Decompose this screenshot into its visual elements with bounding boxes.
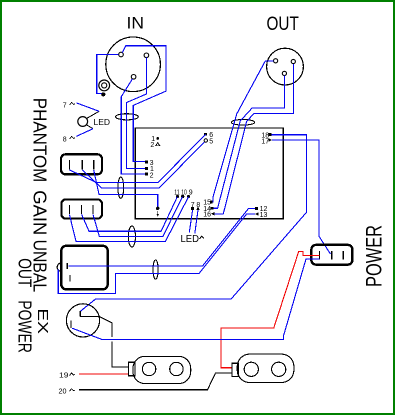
svg-text:EX: EX [34,308,51,334]
wire PCB pin 8 to LED [195,210,198,234]
wire IN left pin to chassis lug [97,55,119,94]
svg-text:19: 19 [59,372,69,379]
PCB pin 5 [204,139,207,142]
R1 shaft bump [57,263,61,271]
wire R1 wiper to PCB pin 12 [68,208,255,265]
cable tie E3 vertical [118,177,124,198]
wire PCB pin 7 to LED [189,210,192,233]
svg-text:8: 8 [63,137,67,144]
power jack J3 body [311,245,352,265]
wire S1-3 to PCB pin 4 [94,170,158,206]
J2 pin right [291,59,295,63]
wire S1-1 to PCB pin 6 [69,134,205,182]
cable tie E2 under OUT [231,120,254,126]
J2 pin left [274,59,278,63]
wire S1-2 to PCB pin 5 [82,142,204,188]
wire OUT pin2(left) to PCB pin 15 [212,61,273,202]
J2 pin bottom [282,71,286,75]
J1 pin right [144,53,149,58]
PCB pin 1 [145,167,148,170]
S1 pin ticks [69,160,93,170]
svg-text:2: 2 [150,142,154,149]
switch S1 PHANTOM body [61,154,102,174]
wire S2-2 to PCB pin 9 [82,197,178,231]
ground lug solder dot [101,92,105,96]
PCB pin 11 [176,195,179,198]
connector J1 XLR IN body [106,37,161,92]
pin 4 down arrow [157,211,159,215]
wire IN pin2(left) to PCB pin 3 [122,46,166,162]
svg-text:17: 17 [261,139,269,146]
svg-text:16: 16 [203,212,211,219]
J1 pin left [119,52,124,57]
wire R1 terminal to PCB pin 13 [58,214,255,294]
LED D1 body [78,117,88,127]
PCB pin 10 [181,195,184,198]
blue wire J3 tip to EX jack sleeve [72,259,320,339]
svg-text:7: 7 [63,103,67,110]
svg-text:POWER: POWER [362,225,387,287]
wire S2-3 to PCB pin 10 [93,197,182,237]
svg-text:IN: IN [127,13,145,32]
PCB pin 4 dot [156,207,159,210]
S2 pin ticks [69,205,93,214]
wire OUT pin1(bottom) to PCB pin 14 [214,76,285,209]
TB2 hole 2 [272,362,286,376]
terminal block TB1 tab [129,362,136,376]
cable tie E4 vertical [128,226,135,247]
cable tie E5 vertical [153,260,158,279]
terminal block TB2 body [237,354,294,382]
EX jack sleeve contact [70,321,72,329]
terminal block TB2 tab [232,363,239,376]
TB1 hole 1 [142,362,155,375]
svg-text:OUT: OUT [267,14,300,35]
J1 pin bottom [131,75,136,80]
chassis ground lug [99,80,110,91]
PCB pin 6 [204,133,207,136]
black wire 20 to terminal block 2 [79,373,232,390]
J3 terminal ticks [319,251,343,259]
svg-text:GAIN: GAIN [29,190,49,235]
red wire J3 tip to terminal block 2 [221,252,320,368]
svg-text:2: 2 [150,172,154,179]
wire PCB pin 18 to EX jack tip [81,135,307,312]
wire S2-1 to PCB pin 11 [69,197,188,242]
wire LED cathode to 8 [77,129,94,137]
EX OUT jack body [66,304,99,337]
PCB pin 2 [145,173,148,176]
switch S2 GAIN body [61,199,102,218]
wire IN pin3(right) to PCB pin 1 [127,58,147,169]
svg-text:20: 20 [59,388,67,395]
potentiometer R1 GAIN body [61,246,107,290]
LED lead top [86,111,99,118]
svg-text:LED: LED [181,234,200,245]
TB2 hole 1 [244,362,258,376]
svg-text:LED: LED [94,117,111,127]
svg-text:5: 5 [209,139,213,146]
wire IN pin1(bottom) to PCB pin 2 [121,79,145,174]
wire LED anode to 7 [77,103,100,111]
terminal block TB1 body [133,356,191,383]
LED lead bottom [86,125,93,129]
svg-text:PHANTOM: PHANTOM [29,98,49,183]
R1 terminal ticks [67,263,70,281]
svg-text:13: 13 [260,212,268,219]
PCB pin 9 [187,195,190,198]
wire PCB pin 17 to power jack center [272,140,331,254]
EX jack tip contact [80,311,128,367]
PCB pin 3 [145,161,148,164]
svg-text:POWER: POWER [14,300,34,353]
cable tie E1 under IN [116,114,139,120]
TB1 hole 2 [170,362,183,375]
PCB board outline [135,128,283,219]
svg-text:OUT: OUT [14,258,34,287]
connector J2 XLR OUT body [267,48,304,85]
red wire 19 to terminal block 1 [79,373,128,375]
wire OUT pin3(right) to PCB pin 16 [215,64,294,214]
